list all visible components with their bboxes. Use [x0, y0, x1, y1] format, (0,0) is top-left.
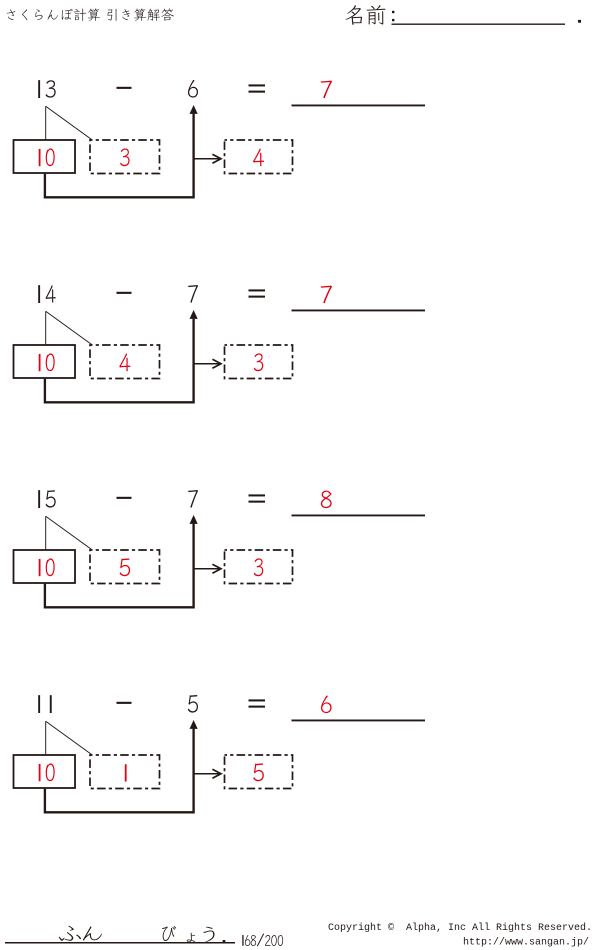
red 3 in dash box P1	[120, 148, 129, 166]
dash-dot result box (4) P1	[225, 140, 293, 174]
dash-dot box (1) P4	[90, 755, 160, 789]
digit 5 of minuend P3	[46, 490, 56, 507]
red 4 in result box P1	[253, 148, 264, 166]
minus sign P3	[117, 497, 132, 499]
digit 1 of minuend P3	[38, 490, 40, 508]
digit 1 of minuend P2	[38, 285, 40, 303]
minus sign P1	[117, 87, 132, 89]
subtrahend 5 P4	[188, 695, 198, 713]
footer underline	[5, 942, 235, 944]
red 5 in result box P4	[253, 763, 264, 781]
thick elbow arrow P2	[45, 319, 194, 403]
equals sign P1	[249, 84, 266, 86]
red answer 7 P1	[321, 81, 332, 98]
svg-text:http://www.sangan.jp/: http://www.sangan.jp/	[463, 937, 589, 949]
digit 3 of minuend P1	[46, 80, 56, 97]
name underline	[392, 23, 566, 25]
header title さくらんぼ計算 引き算解答	[7, 9, 16, 20]
answer underline P2	[292, 309, 426, 311]
red 1 in dash box P4	[125, 764, 127, 781]
subtrahend 7 P3	[188, 490, 198, 508]
red answer 7 P2	[321, 286, 332, 303]
cherry split lines P3	[46, 516, 93, 550]
equals sign P3	[249, 494, 266, 496]
name label 名前:	[346, 5, 363, 25]
equals sign P2	[249, 289, 266, 291]
red 3 in result box P3	[254, 558, 263, 576]
minus sign P4	[117, 702, 132, 704]
cherry split lines P2	[46, 311, 93, 345]
thin arrow P4	[194, 773, 220, 775]
red 5 in dash box P3	[120, 558, 131, 576]
solid box (10) P4	[14, 755, 76, 788]
solid box (10) P1	[14, 140, 76, 173]
dash-dot result box (3) P3	[225, 550, 293, 584]
answer underline P4	[292, 719, 426, 721]
red 10 in solid box P4	[39, 764, 41, 781]
red 10 in solid box P1	[39, 149, 41, 166]
red 10 in solid box P3	[39, 559, 41, 576]
dash-dot result box (5) P4	[225, 755, 293, 789]
thin arrow P2	[194, 363, 220, 365]
answer underline P3	[292, 514, 426, 516]
answer underline P1	[292, 104, 426, 106]
thick elbow arrow P4	[45, 729, 194, 813]
digit 1 of minuend P4	[38, 695, 40, 713]
subtrahend 6 P1	[188, 80, 198, 98]
red answer 6 P4	[321, 696, 332, 713]
solid box (10) P3	[14, 550, 76, 583]
svg-text:Copyright © Alpha, Inc All Ri: Copyright © Alpha, Inc All Rights Reserv…	[328, 922, 592, 934]
solid box (10) P2	[14, 345, 76, 378]
dash-dot box (5) P3	[90, 550, 160, 584]
equals sign P4	[249, 699, 266, 701]
subtrahend 7 P2	[188, 285, 198, 303]
red 4 in dash box P2	[119, 353, 130, 371]
footer time line ふん びょう.	[59, 926, 81, 941]
cherry split lines P4	[46, 721, 93, 755]
digit 4 of minuend P2	[46, 285, 56, 302]
dash-dot result box (3) P2	[225, 345, 293, 379]
red answer 8 P3	[321, 491, 332, 509]
minus sign P2	[117, 292, 132, 294]
red 10 in solid box P2	[39, 354, 41, 371]
thin arrow P3	[194, 568, 220, 570]
dash-dot box (4) P2	[90, 345, 160, 379]
page number 168/200	[242, 935, 243, 946]
dash-dot box (3) P1	[90, 140, 160, 174]
thick elbow arrow P3	[45, 524, 194, 608]
thin arrow P1	[194, 158, 220, 160]
red 3 in result box P2	[254, 353, 263, 371]
digit 1 of minuend P1	[38, 80, 40, 98]
digit 1 of minuend P4	[50, 695, 52, 713]
thick elbow arrow P1	[45, 114, 194, 198]
cherry split lines P1	[46, 106, 93, 140]
